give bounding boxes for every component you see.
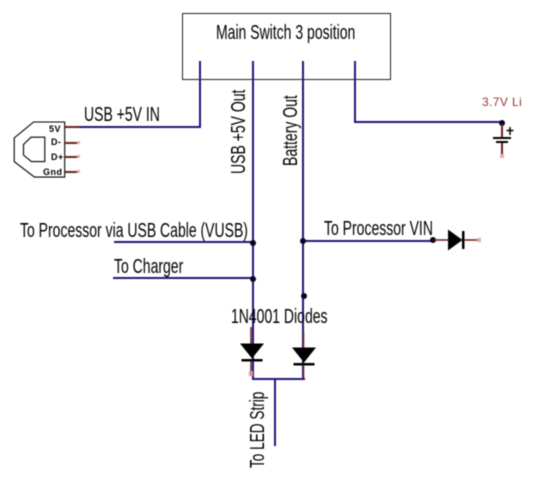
wire: bottom diode join bbox=[252, 378, 305, 380]
label To Charger bbox=[114, 257, 183, 277]
label USB +5V IN bbox=[84, 105, 160, 125]
pin 5V wire bbox=[65, 126, 79, 128]
wire: LED strip stub bbox=[274, 378, 276, 446]
pin D- wire bbox=[65, 142, 78, 144]
node: VIN diode connection bbox=[430, 237, 436, 243]
pin label Gnd bbox=[43, 167, 63, 177]
diode D3 (to processor VIN) bbox=[434, 228, 484, 254]
wire D: switch to battery bbox=[354, 61, 356, 123]
switch box bbox=[182, 13, 391, 80]
label To Processor VIN bbox=[324, 219, 433, 239]
wire: charger horizontal bbox=[113, 277, 254, 279]
battery plus sign bbox=[505, 126, 515, 136]
battery short plate bbox=[496, 141, 508, 143]
label USB +5V Out (vertical) bbox=[229, 89, 249, 173]
wire: USB +5V IN horizontal bbox=[78, 126, 201, 128]
diode D1 (left 1N4001) bbox=[238, 327, 268, 379]
wire B: USB +5V Out vertical bbox=[252, 61, 254, 379]
wire A: switch to USB +5V IN bbox=[199, 61, 201, 128]
pin label D+ bbox=[51, 152, 64, 162]
label Battery Out (vertical) bbox=[281, 95, 301, 166]
node: battery junction bbox=[499, 120, 505, 126]
pin label D- bbox=[51, 137, 62, 147]
label To LED Strip (vertical) bbox=[248, 391, 268, 467]
label 1N4001 Diodes bbox=[231, 307, 328, 327]
USB connector J1 bbox=[8, 115, 88, 185]
wire: VIN horizontal bbox=[302, 240, 434, 242]
pin label 5V bbox=[49, 124, 61, 134]
node: charger junction bbox=[250, 276, 256, 282]
node: VUSB junction bbox=[250, 240, 256, 246]
wire: battery feed horizontal bbox=[354, 121, 503, 123]
battery BT1 3.7V Li bbox=[482, 95, 522, 109]
switch box label bbox=[216, 23, 355, 43]
label To Processor via USB Cable (VUSB) bbox=[20, 221, 248, 241]
battery long plate bbox=[493, 137, 511, 139]
node: VIN junction bbox=[300, 238, 306, 244]
battery bottom pin bbox=[501, 143, 503, 155]
pin D+ wire bbox=[65, 156, 78, 158]
node: battery-out junction bbox=[301, 293, 307, 299]
wire: VUSB horizontal bbox=[114, 241, 254, 243]
pin Gnd wire bbox=[65, 171, 78, 173]
diode D2 (right 1N4001) bbox=[290, 332, 320, 384]
battery top pin bbox=[501, 124, 503, 137]
wire C: Battery Out vertical bbox=[302, 61, 304, 379]
